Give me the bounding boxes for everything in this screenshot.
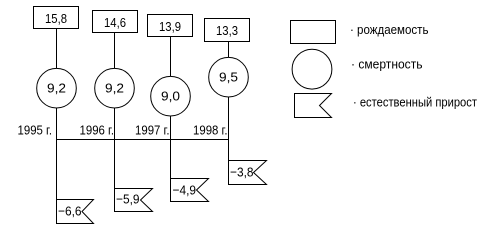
wire 1998 lower segment — [228, 97, 230, 185]
svg-text:15,8: 15,8 — [45, 11, 67, 26]
wire 1998 upper segment — [228, 41, 230, 59]
wire 1996 upper segment — [114, 33, 116, 70]
birth-rate box 1996 value 14,6 — [93, 11, 138, 33]
svg-text:−3,8: −3,8 — [230, 165, 254, 180]
death-rate circle 1998 value 9,5 — [209, 57, 249, 97]
svg-text:· рождаемость: · рождаемость — [350, 22, 429, 37]
natural-increase flag 1997 value -4,9 — [171, 179, 209, 202]
wire 1995 upper segment — [56, 29, 58, 70]
birth-rate box 1997 value 13,9 — [148, 15, 193, 37]
legend circle symbol — [292, 49, 332, 89]
birth-rate box 1995 value 15,8 — [34, 7, 79, 29]
svg-text:· естественный прирост: · естественный прирост — [353, 94, 477, 109]
svg-text:1995 г.: 1995 г. — [18, 123, 53, 138]
natural-increase flag 1996 value -5,9 — [115, 189, 153, 212]
wire 1995 lower segment — [56, 108, 58, 224]
axis line — [57, 139, 229, 141]
svg-text:1996 г.: 1996 г. — [80, 123, 115, 138]
svg-text:1997 г.: 1997 г. — [135, 123, 170, 138]
svg-text:1998 г.: 1998 г. — [193, 123, 228, 138]
death-rate circle 1995 value 9,2 — [37, 68, 77, 108]
wire 1997 lower segment — [170, 116, 172, 202]
svg-text:9,2: 9,2 — [47, 80, 66, 95]
death-rate circle 1997 value 9,0 — [151, 76, 191, 116]
svg-text:−4,9: −4,9 — [173, 183, 197, 198]
svg-text:−5,9: −5,9 — [116, 192, 140, 207]
death-rate circle 1996 value 9,2 — [95, 68, 135, 108]
svg-text:9,2: 9,2 — [105, 80, 124, 95]
natural-increase flag 1995 value -6,6 — [57, 200, 94, 224]
birth-rate box 1998 value 13,3 — [205, 19, 250, 42]
legend box symbol — [291, 21, 336, 44]
svg-text:13,9: 13,9 — [159, 19, 181, 34]
wire 1996 lower segment — [114, 108, 116, 212]
svg-text:9,5: 9,5 — [219, 69, 238, 84]
natural-increase flag 1998 value -3,8 — [229, 161, 267, 185]
svg-text:14,6: 14,6 — [104, 15, 126, 30]
svg-text:· смертность: · смертность — [351, 57, 423, 72]
svg-text:9,0: 9,0 — [161, 88, 180, 103]
svg-text:13,3: 13,3 — [216, 23, 238, 38]
wire 1997 upper segment — [170, 37, 172, 78]
svg-text:−6,6: −6,6 — [58, 204, 82, 219]
legend flag symbol — [295, 94, 332, 118]
